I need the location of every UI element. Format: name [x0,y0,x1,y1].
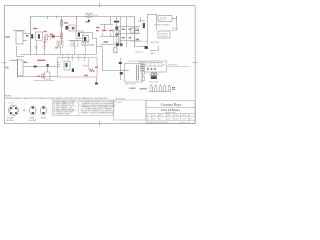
power transformer T1 primary box [158,16,172,22]
node: trem bottom blob [95,83,98,85]
svg-text:IMP 8 OHM: IMP 8 OHM [126,84,136,86]
svg-text:NO DATE: NO DATE [115,101,123,104]
node: bus tick c [47,16,49,19]
label: smudge near V3 wires [89,45,94,46]
wire: V3 output [80,33,97,39]
label: red right of stage3 [96,27,100,28]
border tick bottom center [99,121,101,126]
border tick left center [2,62,7,64]
wire: tube row base [149,91,172,93]
svg-text:Country Boys: Country Boys [161,103,182,107]
svg-text:BIAS: BIAS [150,52,155,55]
wire: vert at 157 [156,14,158,30]
transformer T2 windings [136,65,138,81]
speaker jack panel box [144,61,167,72]
tube icon 5 [168,85,170,91]
title block cell lines [146,114,195,124]
wire: control box stubs [60,47,62,55]
dark blob near standby [116,43,118,46]
svg-text:1647: 1647 [189,119,193,121]
tube V7 plate [66,63,68,67]
resistor mark in box3 [84,42,86,45]
svg-text:NONE: NONE [174,119,178,121]
svg-text:OUTPUT TRANS: OUTPUT TRANS [128,60,143,63]
tube V3 upper plate [78,33,80,37]
label: red stage3 [86,21,90,22]
wire: to right border [167,66,190,68]
tube V1 plate bar right [38,34,40,38]
node: OT marks [119,62,122,64]
svg-text:6-9-62: 6-9-62 [167,119,172,121]
wire: trem cap marks [57,62,60,64]
tube V1 envelope [36,32,43,40]
tremolo red box outline [58,58,98,78]
svg-text:REV B: REV B [182,122,187,124]
svg-text:CHK: CHK [152,115,155,117]
resistor R4 [61,20,63,26]
svg-text:1 OF 1: 1 OF 1 [182,119,187,121]
resistor R10 [42,74,44,78]
svg-text:POWER TRANS.: POWER TRANS. [154,24,170,27]
wire: V4 through line [116,30,118,44]
wire: choke lead [116,17,118,27]
label: smudge left mid [10,60,18,61]
jack strip inner box [146,63,162,67]
svg-text:REVISIONS: REVISIONS [115,99,126,101]
label: cells text [147,114,193,124]
node: bus tick a [56,16,58,19]
notes table divider [78,100,80,116]
svg-text:SLO-BLO: SLO-BLO [160,36,169,38]
socket S1 pads [10,107,17,114]
wire: red vert in trem [88,58,90,70]
tube V4 cathode blob [115,27,118,30]
socket S3 pads [42,107,44,109]
resistor R12 red zigzag [89,69,95,72]
label: tone stack red values [102,30,113,43]
transformer T2 tap boxes [141,65,144,69]
wire: mid ground bus [20,54,97,56]
volume control box 1 [57,41,63,47]
tube icon 1 [150,85,152,91]
socket S2 pads [32,107,34,109]
footswitch FS1 [151,73,154,76]
tube V4 grid mark [116,34,119,36]
rectifier V5 plate bar [143,23,145,28]
svg-text:SOCKET: SOCKET [7,120,15,122]
svg-text:6.3V: 6.3V [94,15,99,17]
wire: lower power row [130,41,147,43]
node: tube tip dots [151,84,170,87]
capacitor C1 bypass marks [35,47,37,49]
wire: channel2 bus [23,66,60,68]
wire: ch2 dark dash [34,66,37,68]
wire: V1 cathode drops [36,41,38,54]
wire: feed line y24 [100,24,113,26]
label: tube row right mark [172,87,175,88]
choke L1 core bar [114,21,119,23]
wire: OT input vert [120,58,122,80]
svg-text:VOLTAGE READINGS TAKEN WITH NO: VOLTAGE READINGS TAKEN WITH NO SIGNAL AP… [5,97,109,100]
node: panel dots [147,68,149,70]
svg-text:R.W.: R.W. [152,119,156,121]
label: tube row left a [130,88,136,89]
pilot lamp PL1 [86,13,92,20]
resistor mark in box1 [59,43,61,46]
wire: trem drops [63,55,85,61]
svg-text:1 2 3 4: 1 2 3 4 [8,103,14,105]
node: V6 top blob [47,64,49,67]
jack cells left column [141,62,145,67]
tube V3 lower envelope [83,36,89,43]
wire: lower bus [18,76,58,78]
wire: V6 drop [47,64,49,72]
tube V3 upper envelope [76,31,83,39]
node: grid stopper tick [26,35,28,36]
wire: small box left mid [17,46,25,57]
input jack J2 [18,58,29,78]
notes table rows [53,103,79,111]
node: bus tick b [76,16,78,19]
wire: coupling to stage2 [48,36,62,38]
svg-text:PRI: PRI [127,70,130,72]
svg-text:SHEET: SHEET [182,115,187,117]
svg-text:OCTAL: OCTAL [41,117,47,120]
capacitor C2 coupling [52,35,55,37]
title block line2 [146,113,195,115]
socket S3 body [40,106,46,115]
title block outer [146,101,195,124]
tube complement row [149,85,172,91]
potentiometer P1 dark blob [120,43,123,46]
svg-text:SPEAKER: SPEAKER [168,64,178,67]
volume control box 3 [82,41,88,46]
svg-text:V7 5U4GB RECTIFIER: V7 5U4GB RECTIFIER [53,114,70,116]
wire: stage3 drop [76,17,78,31]
tube V3 lower plate [84,37,86,41]
wire: control row link [68,40,82,42]
tube icon 3 [159,85,161,91]
title block line1 [146,107,195,109]
label: red smudge a [44,42,47,43]
wire: top feed to PT [148,14,158,16]
label: red smudge b [55,47,58,48]
standby switch dark box [114,47,117,53]
svg-text:SP: SP [163,64,165,66]
node: jack2 tick [24,62,26,63]
rectifier V5 wires [134,14,148,47]
svg-text:TREM: TREM [83,66,89,68]
border tick right center [193,62,198,64]
resistor R2 plate [46,35,48,41]
label: notes table left column text [53,100,75,116]
svg-text:GND SW: GND SW [150,42,159,44]
fuse box F1 [158,31,170,38]
volume control box 2 [71,41,78,47]
wire: V3 to bus [96,39,98,54]
wire: stage2 drop [61,17,63,45]
tone stack wires [100,30,120,46]
svg-text:NOR: NOR [5,37,10,39]
capacitor C10 blob [72,69,74,72]
border tick top center [99,3,101,8]
label: ch2 red [37,76,40,77]
filter cap grid [119,17,141,47]
label: notes right column text [80,100,116,114]
tube icon 4 [164,85,166,91]
border frame [5,6,196,124]
wire: T1 to border [172,16,177,30]
tube V7 envelope [64,62,70,71]
revision box [114,100,147,120]
wire: ch2 lower line [34,80,54,82]
svg-text:2: 2 [189,122,190,124]
input jack J1 [13,31,31,45]
tube V6 envelope [45,72,51,79]
notes table box [53,100,114,116]
label: red value texts stage1 [33,28,53,61]
node: tick between sockets [23,110,25,111]
wire: drop at 110 [110,17,112,24]
wire: B+ top bus [31,17,135,55]
socket S1 outer [8,105,19,116]
wire: red vert near R2 [50,34,52,41]
label: strip ticks [150,63,152,67]
label: R4 value [64,22,68,23]
wire: PI drop [97,47,129,71]
socket S1 inner [10,107,18,115]
wire: corner right mid [150,46,159,51]
wire: below trem [96,77,98,84]
label: trem red values [84,75,88,76]
label: filter cap red values [122,29,139,40]
label: tube row left b [140,88,148,89]
svg-text:VIB: VIB [5,68,9,70]
svg-text:SOCKET: SOCKET [29,120,37,122]
capacitor C3 [72,27,74,29]
svg-text:60 CYC: 60 CYC [160,20,167,22]
resistor mark in box2 [73,42,75,45]
tube V2a envelope [69,25,75,31]
tube icon 2 [155,85,157,91]
dark blob output node [145,46,148,49]
svg-text:OUTPUT: OUTPUT [135,52,144,54]
socket S2 body [30,106,36,115]
output transformer T2 box [125,64,143,83]
resistor R5 cathode [61,33,63,39]
tube V4 envelope [114,31,121,44]
svg-text:5U4GB: 5U4GB [138,21,145,23]
diode block boxes [131,28,138,33]
tube V2a dark electrode [66,26,68,30]
switch SW1 marks [173,28,177,31]
tube V1 plate bar left [31,34,33,38]
svg-text:FOOT SW: FOOT SW [150,82,159,84]
node: lamp lead blob [88,20,90,22]
svg-text:Plexi 16 Brown: Plexi 16 Brown [161,108,180,112]
